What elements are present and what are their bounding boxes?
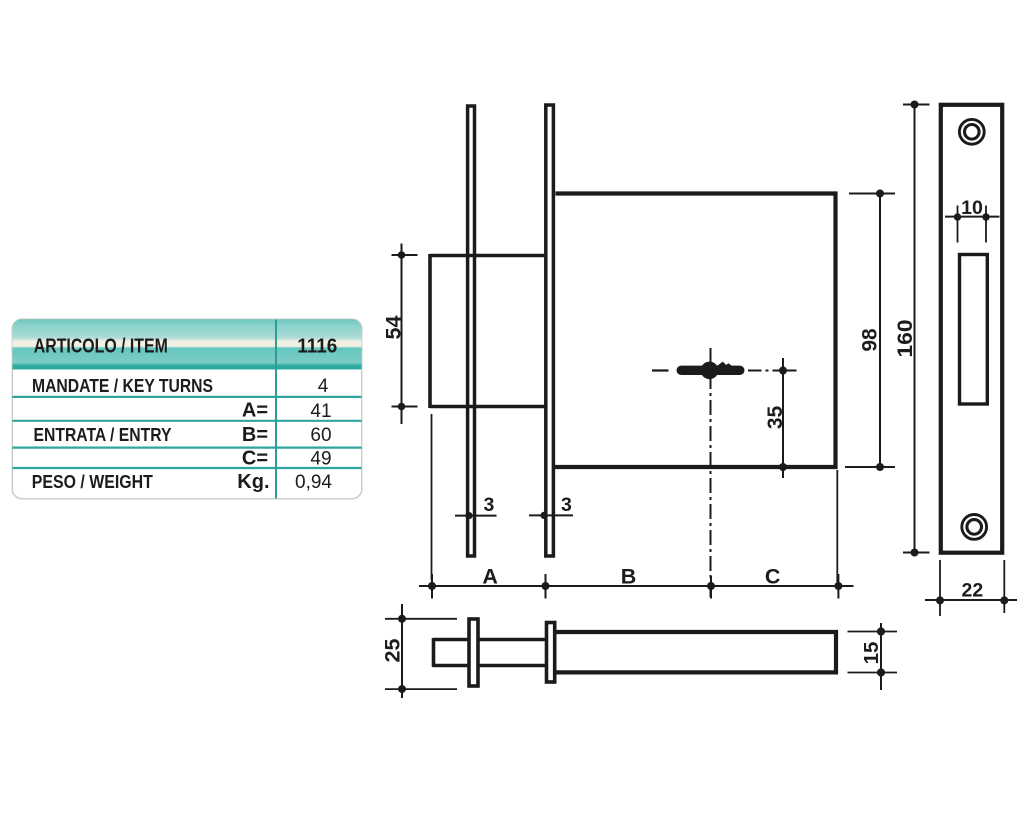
svg-text:MANDATE / KEY TURNS: MANDATE / KEY TURNS bbox=[32, 375, 213, 396]
svg-text:A: A bbox=[482, 565, 498, 589]
svg-text:ENTRATA / ENTRY: ENTRATA / ENTRY bbox=[34, 424, 173, 445]
svg-text:25: 25 bbox=[381, 639, 405, 663]
svg-text:160: 160 bbox=[894, 320, 917, 358]
svg-text:98: 98 bbox=[859, 328, 882, 352]
svg-text:C=: C= bbox=[242, 448, 268, 470]
svg-text:15: 15 bbox=[860, 642, 883, 665]
svg-text:PESO / WEIGHT: PESO / WEIGHT bbox=[32, 471, 154, 492]
svg-text:60: 60 bbox=[310, 425, 331, 446]
svg-text:22: 22 bbox=[962, 580, 984, 602]
svg-text:0,94: 0,94 bbox=[295, 472, 332, 493]
svg-text:B: B bbox=[621, 565, 637, 589]
svg-text:A=: A= bbox=[242, 400, 268, 422]
svg-text:49: 49 bbox=[310, 448, 331, 469]
svg-text:C: C bbox=[765, 565, 781, 589]
svg-text:Kg.: Kg. bbox=[237, 471, 269, 493]
svg-text:1116: 1116 bbox=[297, 336, 337, 358]
svg-text:35: 35 bbox=[764, 406, 787, 430]
svg-text:54: 54 bbox=[382, 316, 406, 340]
svg-text:3: 3 bbox=[561, 494, 572, 516]
svg-text:41: 41 bbox=[310, 401, 331, 422]
svg-text:3: 3 bbox=[484, 494, 495, 516]
svg-text:B=: B= bbox=[242, 424, 268, 446]
svg-text:4: 4 bbox=[318, 376, 329, 397]
svg-text:ARTICOLO / ITEM: ARTICOLO / ITEM bbox=[34, 336, 168, 358]
svg-text:10: 10 bbox=[961, 197, 983, 219]
